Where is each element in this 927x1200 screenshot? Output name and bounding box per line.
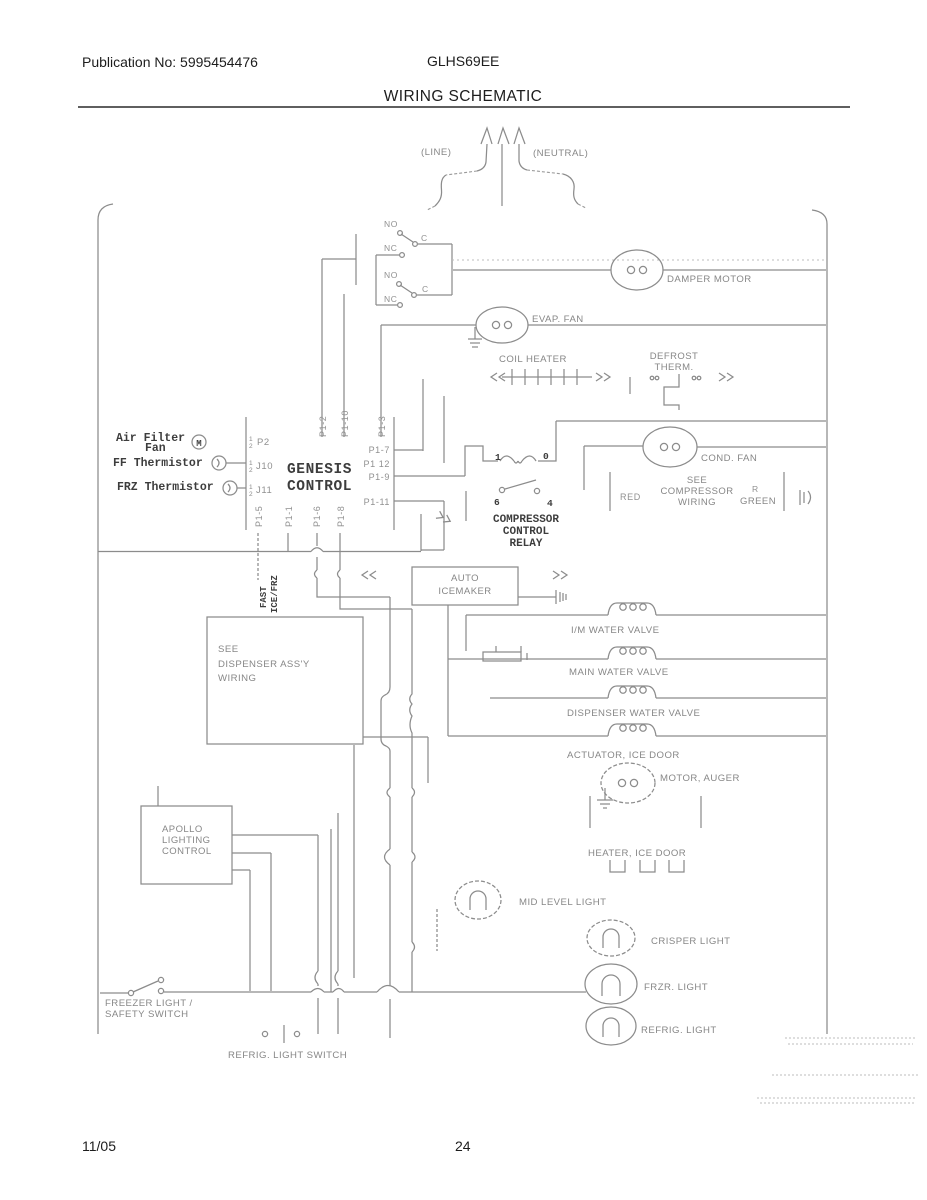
- svg-text:ICE/FRZ: ICE/FRZ: [270, 575, 280, 613]
- svg-text:ACTUATOR, ICE DOOR: ACTUATOR, ICE DOOR: [567, 750, 680, 761]
- svg-text:Fan: Fan: [145, 442, 166, 455]
- svg-text:CRISPER LIGHT: CRISPER LIGHT: [651, 936, 730, 947]
- svg-text:NC: NC: [384, 243, 397, 253]
- svg-text:CONTROL: CONTROL: [503, 526, 550, 538]
- svg-text:DAMPER MOTOR: DAMPER MOTOR: [667, 274, 752, 285]
- svg-text:11/05: 11/05: [82, 1138, 116, 1154]
- svg-text:RELAY: RELAY: [509, 538, 542, 550]
- svg-text:REFRIG. LIGHT SWITCH: REFRIG. LIGHT SWITCH: [228, 1050, 347, 1061]
- svg-text:WIRING: WIRING: [218, 673, 256, 684]
- svg-text:P1-8: P1-8: [336, 506, 346, 527]
- svg-text:COMPRESSOR: COMPRESSOR: [493, 514, 559, 526]
- svg-text:P1-5: P1-5: [254, 506, 264, 527]
- svg-text:P1-1: P1-1: [284, 506, 294, 527]
- svg-text:M: M: [196, 439, 201, 449]
- svg-text:WIRING SCHEMATIC: WIRING SCHEMATIC: [384, 88, 543, 105]
- svg-text:SEE: SEE: [687, 475, 707, 486]
- svg-text:APOLLO: APOLLO: [162, 824, 203, 835]
- svg-text:DISPENSER WATER VALVE: DISPENSER WATER VALVE: [567, 708, 700, 719]
- svg-text:MAIN WATER VALVE: MAIN WATER VALVE: [569, 667, 669, 678]
- svg-text:J11: J11: [256, 485, 272, 496]
- svg-text:NC: NC: [384, 294, 397, 304]
- svg-text:GLHS69EE: GLHS69EE: [427, 53, 499, 69]
- svg-text:NO: NO: [384, 270, 398, 280]
- svg-text:R: R: [752, 484, 759, 494]
- svg-text:DISPENSER ASS'Y: DISPENSER ASS'Y: [218, 659, 310, 670]
- svg-text:1: 1: [249, 436, 253, 443]
- svg-text:0: 0: [543, 451, 549, 462]
- svg-text:1: 1: [495, 452, 501, 463]
- svg-text:P1-7: P1-7: [369, 445, 390, 455]
- svg-text:Publication No: 5995454476: Publication No: 5995454476: [82, 54, 258, 70]
- svg-text:C: C: [421, 233, 428, 243]
- svg-text:MOTOR, AUGER: MOTOR, AUGER: [660, 773, 740, 784]
- svg-text:P1-10: P1-10: [340, 410, 350, 437]
- svg-text:REFRIG. LIGHT: REFRIG. LIGHT: [641, 1025, 717, 1036]
- svg-text:NO: NO: [384, 219, 398, 229]
- svg-text:4: 4: [547, 498, 553, 509]
- svg-text:I/M WATER VALVE: I/M WATER VALVE: [571, 625, 659, 636]
- svg-text:WIRING: WIRING: [678, 497, 716, 508]
- svg-text:COIL HEATER: COIL HEATER: [499, 354, 567, 365]
- svg-text:2: 2: [249, 443, 253, 450]
- svg-text:FREEZER LIGHT /: FREEZER LIGHT /: [105, 998, 193, 1009]
- svg-text:RED: RED: [620, 492, 641, 502]
- svg-text:C: C: [422, 284, 429, 294]
- svg-text:P2: P2: [257, 437, 270, 448]
- svg-text:1: 1: [249, 460, 253, 467]
- svg-text:1: 1: [249, 484, 253, 491]
- svg-text:P1-9: P1-9: [369, 472, 390, 482]
- svg-text:FAST: FAST: [259, 586, 269, 608]
- svg-text:P1-3: P1-3: [377, 416, 387, 437]
- svg-text:P1-6: P1-6: [312, 506, 322, 527]
- svg-text:J10: J10: [256, 461, 273, 472]
- svg-text:SEE: SEE: [218, 644, 239, 655]
- svg-text:HEATER, ICE DOOR: HEATER, ICE DOOR: [588, 848, 686, 859]
- svg-text:DEFROST: DEFROST: [650, 351, 699, 362]
- svg-text:SAFETY SWITCH: SAFETY SWITCH: [105, 1009, 189, 1020]
- svg-text:MID LEVEL LIGHT: MID LEVEL LIGHT: [519, 897, 606, 908]
- svg-text:P1-2: P1-2: [318, 416, 328, 437]
- svg-text:EVAP. FAN: EVAP. FAN: [532, 314, 584, 325]
- svg-text:GENESIS: GENESIS: [287, 462, 352, 478]
- svg-text:2: 2: [249, 491, 253, 498]
- svg-text:P1-11: P1-11: [364, 497, 390, 507]
- svg-text:ICEMAKER: ICEMAKER: [438, 586, 491, 597]
- svg-text:CONTROL: CONTROL: [287, 479, 352, 495]
- svg-text:COMPRESSOR: COMPRESSOR: [660, 486, 733, 497]
- svg-text:AUTO: AUTO: [451, 573, 479, 584]
- svg-text:P1 12: P1 12: [363, 459, 390, 469]
- svg-text:GREEN: GREEN: [740, 496, 776, 507]
- svg-text:2: 2: [249, 467, 253, 474]
- svg-text:CONTROL: CONTROL: [162, 846, 212, 857]
- svg-text:FRZ Thermistor: FRZ Thermistor: [117, 481, 214, 494]
- svg-text:(NEUTRAL): (NEUTRAL): [533, 148, 588, 159]
- svg-text:COND. FAN: COND. FAN: [701, 453, 757, 464]
- svg-text:24: 24: [455, 1138, 471, 1154]
- svg-text:THERM.: THERM.: [654, 362, 693, 373]
- svg-text:LIGHTING: LIGHTING: [162, 835, 210, 846]
- svg-text:FRZR. LIGHT: FRZR. LIGHT: [644, 982, 708, 993]
- svg-text:6: 6: [494, 497, 500, 508]
- svg-text:FF Thermistor: FF Thermistor: [113, 457, 203, 470]
- svg-text:(LINE): (LINE): [421, 147, 451, 158]
